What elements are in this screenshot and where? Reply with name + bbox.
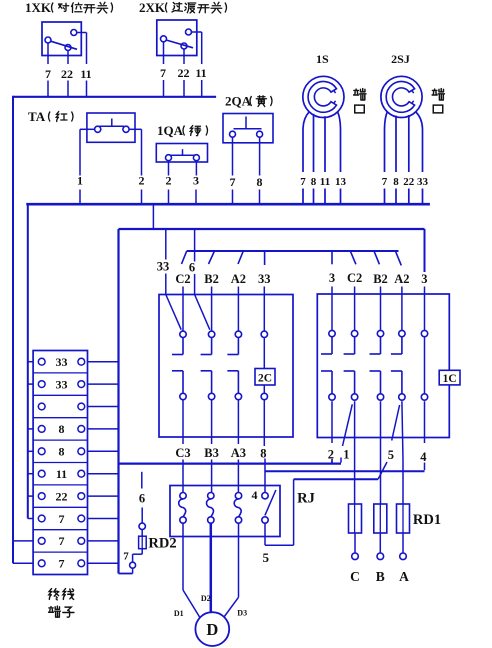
svg-text:C3: C3 — [175, 446, 190, 460]
svg-text:8: 8 — [393, 176, 399, 188]
svg-text:RJ: RJ — [297, 491, 315, 507]
svg-text:1XK: 1XK — [25, 0, 52, 15]
svg-text:D: D — [206, 620, 218, 639]
svg-text:8: 8 — [311, 176, 317, 188]
svg-text:A3: A3 — [231, 446, 246, 460]
svg-text:RD1: RD1 — [413, 512, 441, 528]
svg-text:7: 7 — [382, 176, 388, 188]
svg-text:8: 8 — [260, 447, 266, 461]
svg-text:B3: B3 — [204, 446, 219, 460]
svg-text:3: 3 — [329, 271, 335, 285]
svg-text:1: 1 — [77, 174, 83, 188]
svg-text:33: 33 — [258, 272, 271, 286]
svg-text:3: 3 — [421, 272, 427, 286]
svg-text:A2: A2 — [394, 272, 409, 286]
svg-text:8: 8 — [59, 422, 65, 436]
svg-text:22: 22 — [61, 67, 73, 81]
svg-text:5: 5 — [263, 550, 270, 565]
svg-text:33: 33 — [157, 260, 170, 274]
svg-text:6: 6 — [139, 492, 145, 506]
svg-text:7: 7 — [230, 175, 236, 189]
svg-text:7: 7 — [123, 551, 129, 563]
svg-text:22: 22 — [56, 489, 68, 503]
svg-text:8: 8 — [257, 175, 263, 189]
svg-text:11: 11 — [80, 67, 91, 81]
svg-text:D2: D2 — [201, 594, 211, 603]
svg-text:2XK: 2XK — [139, 0, 166, 15]
svg-text:C2: C2 — [175, 272, 190, 286]
svg-text:22: 22 — [403, 176, 415, 188]
svg-text:A: A — [399, 569, 409, 584]
svg-text:B2: B2 — [373, 272, 388, 286]
svg-text:13: 13 — [335, 176, 347, 188]
svg-text:TA: TA — [28, 109, 46, 124]
svg-text:2: 2 — [139, 174, 145, 188]
svg-text:1S: 1S — [316, 52, 329, 66]
svg-text:2SJ: 2SJ — [391, 52, 410, 66]
svg-text:1C: 1C — [443, 373, 457, 385]
svg-text:22: 22 — [178, 66, 190, 80]
svg-text:2QA: 2QA — [225, 94, 252, 109]
svg-text:7: 7 — [59, 534, 65, 548]
svg-text:4: 4 — [420, 450, 427, 464]
svg-text:2: 2 — [328, 448, 334, 462]
svg-text:11: 11 — [320, 176, 330, 188]
svg-text:B: B — [376, 569, 385, 584]
svg-text:7: 7 — [59, 557, 65, 571]
svg-text:7: 7 — [45, 67, 51, 81]
svg-text:5: 5 — [388, 448, 394, 462]
svg-text:D3: D3 — [237, 609, 247, 618]
svg-text:33: 33 — [417, 176, 429, 188]
svg-text:7: 7 — [59, 512, 65, 526]
svg-text:7: 7 — [300, 176, 306, 188]
svg-text:1: 1 — [343, 448, 349, 462]
svg-text:4: 4 — [252, 488, 258, 502]
svg-text:2C: 2C — [258, 373, 272, 385]
svg-text:RD2: RD2 — [148, 536, 176, 552]
svg-text:1QA: 1QA — [157, 123, 184, 138]
svg-text:3: 3 — [193, 174, 199, 188]
svg-text:D1: D1 — [174, 609, 184, 618]
svg-text:33: 33 — [56, 377, 68, 391]
svg-text:B2: B2 — [204, 272, 219, 286]
svg-text:C: C — [350, 569, 360, 584]
svg-text:11: 11 — [195, 66, 206, 80]
svg-text:A2: A2 — [231, 272, 246, 286]
svg-text:2: 2 — [166, 174, 172, 188]
svg-text:7: 7 — [160, 66, 166, 80]
svg-text:33: 33 — [56, 355, 68, 369]
svg-text:C2: C2 — [347, 271, 362, 285]
svg-text:11: 11 — [56, 467, 67, 481]
svg-text:8: 8 — [59, 445, 65, 459]
